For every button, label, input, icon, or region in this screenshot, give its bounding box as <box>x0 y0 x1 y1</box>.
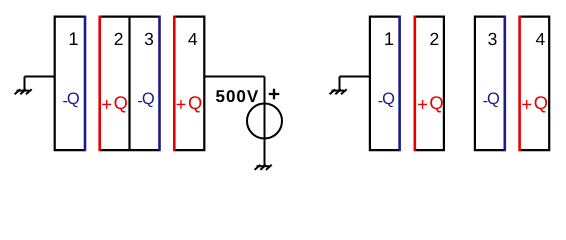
plate 1 (right circuit) outline <box>370 17 400 151</box>
plate 3 (right circuit) outline <box>475 17 505 151</box>
svg-text:2: 2 <box>114 29 124 49</box>
plates 2+3 (left circuit) black outline and divider <box>100 17 160 151</box>
plate 4 (right circuit) red charged face <box>518 16 521 152</box>
svg-text:4: 4 <box>536 29 546 49</box>
svg-text:Q: Q <box>534 92 548 113</box>
voltage source V1 circle <box>247 104 282 139</box>
svg-text:Q: Q <box>114 92 128 113</box>
svg-text:1: 1 <box>384 28 394 49</box>
svg-text:3: 3 <box>488 29 498 49</box>
plate 4 (right circuit) outline <box>520 17 550 151</box>
charge label -Q plate 1 (left circuit) <box>62 90 79 110</box>
plate 1 (left circuit) outline <box>55 17 85 151</box>
svg-text:Q: Q <box>382 90 395 108</box>
ground GND1 (left circuit) <box>15 77 32 95</box>
charge label -Q plate 1 (right circuit) <box>378 90 395 110</box>
plate 4 (left circuit) red charged face <box>173 16 176 152</box>
ground GND2 (below source) <box>255 165 272 170</box>
wire ground to plate 1 (left circuit) <box>25 76 55 78</box>
charge label -Q plate 3 (right circuit) <box>483 90 500 110</box>
ground GND3 (right circuit) <box>330 77 347 95</box>
plate 2 (left circuit) red charged face <box>98 16 101 152</box>
wire plate 4 to source V1 <box>204 76 264 78</box>
charge label +Q plate 4 (right circuit) <box>521 92 548 115</box>
svg-text:4: 4 <box>188 29 198 49</box>
charge label -Q plate 3 (left circuit) <box>137 90 154 110</box>
svg-text:1: 1 <box>68 28 78 49</box>
charge label +Q plate 2 (right circuit) <box>417 92 443 115</box>
svg-text:Q: Q <box>142 90 155 108</box>
svg-text:Q: Q <box>67 90 80 108</box>
plate 4 (left circuit) outline <box>174 17 204 151</box>
svg-text:2: 2 <box>430 29 440 49</box>
svg-text:Q: Q <box>487 90 500 108</box>
wire vertical through V1 down to ground <box>264 77 266 167</box>
wire ground to plate 1 (right circuit) <box>340 76 370 78</box>
plate 1 (left circuit) blue charged face <box>84 16 87 152</box>
charge label +Q plate 2 (left circuit) <box>101 92 128 115</box>
plate 2 (right circuit) outline <box>415 17 444 151</box>
plate 1 (right circuit) blue charged face <box>398 16 401 152</box>
svg-text:+: + <box>101 94 112 115</box>
svg-text:Q: Q <box>429 92 443 113</box>
svg-text:+: + <box>268 83 280 106</box>
svg-text:3: 3 <box>144 29 154 49</box>
plate 3 (left circuit) blue charged face <box>158 16 161 152</box>
svg-text:+: + <box>176 94 187 115</box>
svg-text:500V: 500V <box>216 87 260 106</box>
svg-text:+: + <box>521 94 532 115</box>
plate 3 (right circuit) blue charged face <box>503 16 506 152</box>
plate 2 (right circuit) red charged face <box>413 16 416 152</box>
charge label +Q plate 4 (left circuit) <box>176 92 203 115</box>
svg-text:+: + <box>417 94 428 115</box>
svg-text:Q: Q <box>188 92 202 113</box>
